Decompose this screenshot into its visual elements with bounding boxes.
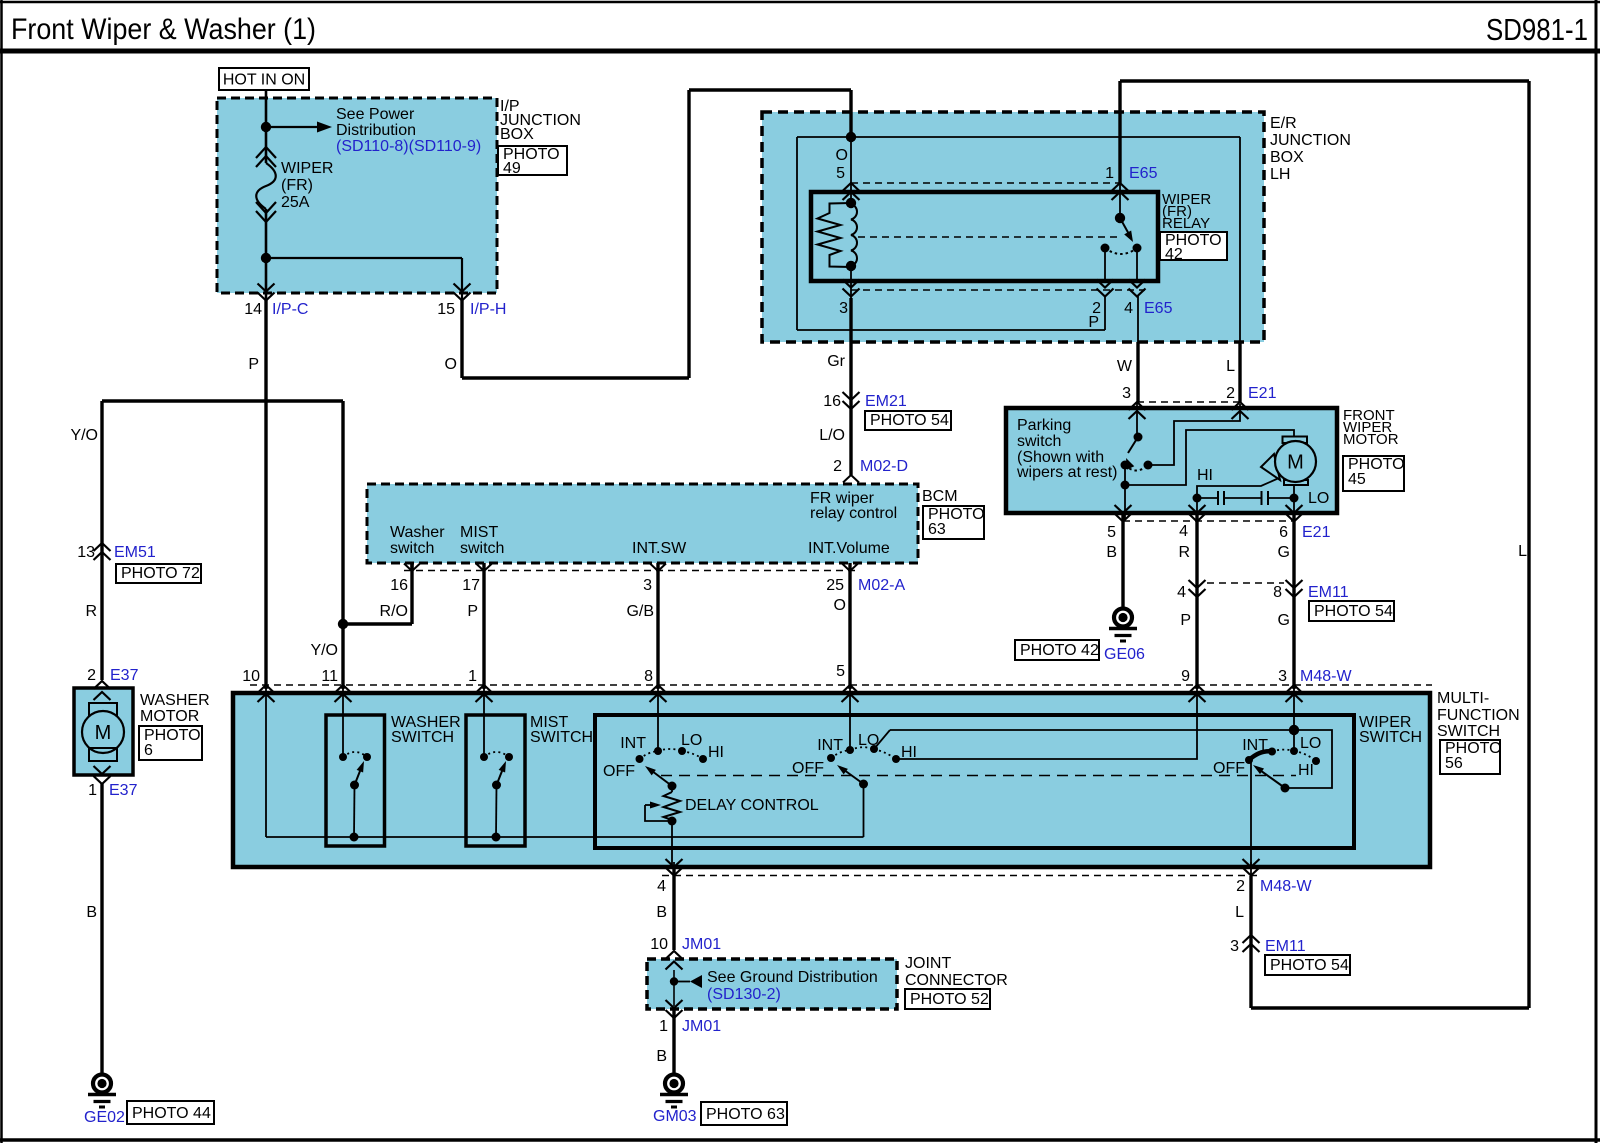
svg-text:HI: HI — [1298, 762, 1314, 779]
svg-text:6: 6 — [144, 742, 153, 759]
svg-text:OFF: OFF — [1213, 760, 1245, 777]
svg-text:JM01: JM01 — [682, 1018, 721, 1035]
svg-text:15: 15 — [437, 301, 455, 318]
svg-text:M02-A: M02-A — [858, 577, 905, 594]
svg-text:PHOTO 54: PHOTO 54 — [870, 412, 949, 429]
svg-text:L: L — [1518, 543, 1527, 560]
svg-text:14: 14 — [244, 301, 262, 318]
svg-text:SWITCH: SWITCH — [391, 729, 454, 746]
svg-text:G: G — [1278, 544, 1290, 561]
svg-text:PHOTO 63: PHOTO 63 — [706, 1106, 785, 1123]
svg-text:O: O — [836, 147, 848, 164]
svg-text:42: 42 — [1165, 246, 1183, 263]
svg-text:SWITCH: SWITCH — [530, 729, 593, 746]
svg-text:WASHER: WASHER — [140, 692, 210, 709]
svg-text:16: 16 — [823, 393, 841, 410]
svg-text:25A: 25A — [281, 194, 310, 211]
svg-text:M: M — [1287, 452, 1304, 474]
svg-text:10: 10 — [650, 936, 668, 953]
svg-text:R/O: R/O — [380, 603, 408, 620]
svg-text:SWITCH: SWITCH — [1359, 729, 1422, 746]
svg-text:1: 1 — [88, 782, 97, 799]
svg-text:See Ground Distribution: See Ground Distribution — [707, 969, 878, 986]
svg-text:INT: INT — [1242, 737, 1268, 754]
svg-text:11: 11 — [321, 668, 338, 685]
svg-text:E37: E37 — [110, 667, 139, 684]
svg-text:(SD110-8)(SD110-9): (SD110-8)(SD110-9) — [336, 138, 481, 155]
svg-text:OFF: OFF — [603, 763, 635, 780]
svg-text:17: 17 — [462, 577, 480, 594]
svg-text:3: 3 — [1230, 938, 1239, 955]
svg-text:B: B — [86, 904, 97, 921]
svg-text:EM21: EM21 — [865, 393, 907, 410]
svg-text:63: 63 — [928, 521, 946, 538]
svg-text:W: W — [1117, 358, 1133, 375]
svg-text:M02-D: M02-D — [860, 458, 908, 475]
svg-text:1: 1 — [468, 668, 477, 685]
svg-text:HOT IN ON: HOT IN ON — [223, 72, 305, 89]
svg-text:(SD130-2): (SD130-2) — [707, 986, 781, 1003]
svg-text:B: B — [1106, 544, 1117, 561]
svg-text:MULTI-: MULTI- — [1437, 690, 1489, 707]
svg-text:GM03: GM03 — [653, 1108, 697, 1125]
svg-text:MOTOR: MOTOR — [1343, 431, 1399, 448]
svg-text:3: 3 — [839, 300, 848, 317]
svg-text:4: 4 — [657, 878, 666, 895]
svg-text:PHOTO 72: PHOTO 72 — [121, 565, 200, 582]
svg-text:DELAY CONTROL: DELAY CONTROL — [685, 797, 819, 814]
svg-text:BCM: BCM — [922, 488, 958, 505]
svg-text:CONNECTOR: CONNECTOR — [905, 972, 1008, 989]
svg-text:E/R: E/R — [1270, 115, 1297, 132]
svg-text:Y/O: Y/O — [70, 427, 98, 444]
svg-text:I/P-C: I/P-C — [272, 301, 308, 318]
svg-text:GE02: GE02 — [84, 1109, 125, 1126]
svg-text:M: M — [95, 722, 112, 744]
svg-text:PHOTO 54: PHOTO 54 — [1314, 603, 1393, 620]
svg-text:(FR): (FR) — [281, 177, 313, 194]
svg-text:See Power: See Power — [336, 106, 415, 123]
svg-text:EM51: EM51 — [114, 544, 156, 561]
svg-text:1: 1 — [659, 1018, 668, 1035]
svg-text:RELAY: RELAY — [1162, 215, 1210, 232]
svg-text:10: 10 — [242, 668, 260, 685]
svg-text:E21: E21 — [1302, 524, 1331, 541]
svg-text:16: 16 — [390, 577, 408, 594]
svg-text:M48-W: M48-W — [1300, 668, 1352, 685]
svg-text:relay control: relay control — [810, 505, 897, 522]
svg-text:5: 5 — [1107, 524, 1116, 541]
svg-text:R: R — [85, 603, 97, 620]
svg-text:GE06: GE06 — [1104, 646, 1145, 663]
svg-text:2: 2 — [87, 667, 96, 684]
svg-text:INT.SW: INT.SW — [632, 540, 687, 557]
svg-text:8: 8 — [644, 668, 653, 685]
svg-text:G: G — [1278, 612, 1290, 629]
svg-text:L: L — [1235, 904, 1244, 921]
svg-text:4: 4 — [1124, 300, 1133, 317]
svg-text:MOTOR: MOTOR — [140, 708, 199, 725]
svg-text:I/P-H: I/P-H — [470, 301, 506, 318]
svg-text:P: P — [1088, 314, 1099, 331]
svg-text:Y/O: Y/O — [310, 642, 338, 659]
svg-text:FUNCTION: FUNCTION — [1437, 707, 1520, 724]
svg-text:E21: E21 — [1248, 385, 1277, 402]
svg-text:BOX: BOX — [500, 126, 534, 143]
svg-text:MIST: MIST — [460, 524, 498, 541]
svg-text:EM11: EM11 — [1308, 584, 1349, 601]
svg-text:49: 49 — [503, 160, 521, 177]
svg-text:LH: LH — [1270, 166, 1290, 183]
svg-text:25: 25 — [826, 577, 844, 594]
svg-text:P: P — [467, 603, 478, 620]
svg-text:Gr: Gr — [827, 353, 845, 370]
svg-text:O: O — [834, 597, 846, 614]
svg-text:switch: switch — [390, 540, 434, 557]
svg-text:LO: LO — [681, 732, 702, 749]
svg-text:LO: LO — [1300, 735, 1321, 752]
svg-text:JUNCTION: JUNCTION — [1270, 132, 1351, 149]
svg-text:G/B: G/B — [626, 603, 654, 620]
svg-text:INT.Volume: INT.Volume — [808, 540, 890, 557]
svg-text:1: 1 — [1105, 165, 1114, 182]
svg-text:B: B — [656, 1048, 667, 1065]
svg-text:JOINT: JOINT — [905, 955, 951, 972]
svg-text:INT: INT — [620, 735, 646, 752]
svg-text:SWITCH: SWITCH — [1437, 723, 1500, 740]
svg-text:LO: LO — [1308, 490, 1329, 507]
svg-text:3: 3 — [1122, 385, 1131, 402]
svg-text:E37: E37 — [109, 782, 138, 799]
svg-text:PHOTO 42: PHOTO 42 — [1020, 642, 1099, 659]
svg-text:SD981-1: SD981-1 — [1486, 12, 1588, 47]
svg-text:E65: E65 — [1144, 300, 1173, 317]
svg-text:O: O — [445, 356, 457, 373]
svg-text:wipers at rest): wipers at rest) — [1016, 464, 1117, 481]
svg-text:P: P — [1180, 612, 1191, 629]
svg-text:R: R — [1178, 544, 1190, 561]
svg-text:Distribution: Distribution — [336, 122, 416, 139]
svg-text:HI: HI — [708, 744, 724, 761]
svg-text:L/O: L/O — [819, 427, 845, 444]
svg-text:3: 3 — [643, 577, 652, 594]
svg-text:INT: INT — [817, 737, 843, 754]
svg-text:PHOTO 44: PHOTO 44 — [132, 1105, 211, 1122]
svg-text:B: B — [656, 904, 667, 921]
svg-text:BOX: BOX — [1270, 149, 1304, 166]
svg-text:9: 9 — [1181, 668, 1190, 685]
svg-text:2: 2 — [1236, 878, 1245, 895]
svg-text:13: 13 — [77, 544, 95, 561]
svg-text:5: 5 — [836, 165, 845, 182]
svg-text:E65: E65 — [1129, 165, 1158, 182]
svg-text:Washer: Washer — [390, 524, 445, 541]
svg-text:PHOTO 52: PHOTO 52 — [910, 991, 989, 1008]
svg-text:3: 3 — [1278, 668, 1287, 685]
svg-text:M48-W: M48-W — [1260, 878, 1312, 895]
svg-text:4: 4 — [1179, 523, 1188, 540]
svg-text:Front Wiper & Washer (1): Front Wiper & Washer (1) — [11, 13, 316, 46]
svg-text:PHOTO 54: PHOTO 54 — [1270, 957, 1349, 974]
svg-text:45: 45 — [1348, 471, 1366, 488]
svg-text:8: 8 — [1273, 584, 1282, 601]
svg-text:EM11: EM11 — [1265, 938, 1306, 955]
svg-text:switch: switch — [460, 540, 504, 557]
svg-text:HI: HI — [901, 744, 917, 761]
svg-text:JM01: JM01 — [682, 936, 721, 953]
svg-text:4: 4 — [1177, 584, 1186, 601]
svg-text:56: 56 — [1445, 755, 1463, 772]
svg-text:L: L — [1226, 358, 1235, 375]
svg-text:6: 6 — [1279, 524, 1288, 541]
svg-text:WIPER: WIPER — [281, 160, 333, 177]
svg-text:2: 2 — [833, 458, 842, 475]
svg-text:switch: switch — [1017, 433, 1061, 450]
svg-text:HI: HI — [1197, 467, 1213, 484]
svg-text:P: P — [248, 356, 259, 373]
svg-text:2: 2 — [1226, 385, 1235, 402]
svg-text:OFF: OFF — [792, 760, 824, 777]
svg-text:Parking: Parking — [1017, 417, 1071, 434]
svg-text:5: 5 — [836, 663, 845, 680]
